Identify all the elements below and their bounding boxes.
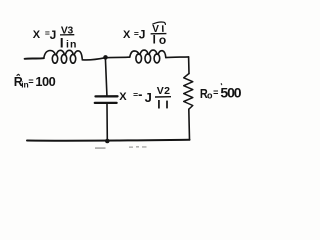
label X = J V1/Io <box>123 22 166 47</box>
svg-text:V2: V2 <box>157 85 170 97</box>
svg-text:J: J <box>145 90 152 105</box>
inductor L2 loop 3 <box>154 54 160 63</box>
svg-text:100: 100 <box>35 74 55 89</box>
wire node to L2 <box>105 56 129 59</box>
svg-text:I: I <box>157 98 160 112</box>
svg-text:I: I <box>60 35 64 51</box>
svg-text:=: = <box>213 88 218 98</box>
wire L2 to top-right corner <box>166 56 189 59</box>
svg-text:o: o <box>159 33 166 47</box>
wire corner down to resistor top <box>188 57 190 74</box>
caption fragment (cut off at bottom) <box>95 146 147 149</box>
label X = J V3/Iin <box>33 25 78 50</box>
wire top-left input segment <box>25 57 44 60</box>
svg-text:o: o <box>207 90 213 100</box>
inductor L1 humps <box>44 51 56 59</box>
wire capacitor bottom lead <box>106 104 108 139</box>
inductor L2 humps <box>130 51 139 57</box>
svg-text:=: = <box>133 89 138 99</box>
capacitor C top plate <box>96 95 118 97</box>
svg-text:X: X <box>123 29 131 41</box>
label Ro = 500 <box>200 83 242 101</box>
inductor L1 loop 1 <box>52 54 57 63</box>
wire L1 to node <box>82 58 105 60</box>
svg-text:J: J <box>50 28 57 42</box>
inductor L1 loop 2 <box>61 54 66 63</box>
svg-text:in: in <box>66 39 78 51</box>
svg-text:I: I <box>153 35 156 47</box>
svg-text:X: X <box>33 29 41 41</box>
svg-text:=: = <box>28 76 33 86</box>
label Rin = 100 <box>14 74 56 89</box>
junction node bottom <box>105 139 110 144</box>
capacitor C bottom plate <box>95 102 117 104</box>
wire resistor bottom to corner <box>188 109 191 140</box>
svg-text:500: 500 <box>220 85 241 101</box>
inductor L2 loop 1 <box>136 54 142 63</box>
inductor L1 loop 3 <box>70 54 75 63</box>
junction node top <box>103 55 108 60</box>
svg-text:J: J <box>139 28 146 42</box>
label X = -J V2/I1 <box>119 85 171 112</box>
inductor L2 loop 2 <box>145 54 151 63</box>
wire capacitor top lead <box>105 58 107 95</box>
wire bottom rail <box>27 139 190 142</box>
resistor Ro zigzag <box>184 74 193 110</box>
svg-text:X: X <box>119 91 127 103</box>
